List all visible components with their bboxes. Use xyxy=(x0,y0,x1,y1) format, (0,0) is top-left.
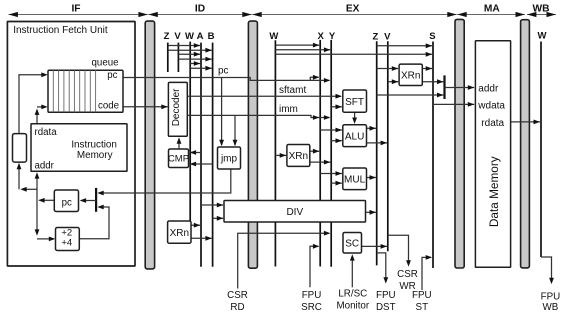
svg-text:V: V xyxy=(174,31,181,42)
svg-text:Monitor: Monitor xyxy=(336,301,369,312)
svg-text:Memory: Memory xyxy=(77,150,113,161)
svg-text:V: V xyxy=(384,31,391,42)
svg-text:sftamt: sftamt xyxy=(279,85,306,96)
svg-text:Decoder: Decoder xyxy=(171,88,182,126)
svg-text:XRn: XRn xyxy=(401,71,420,82)
svg-text:Instruction Fetch Unit: Instruction Fetch Unit xyxy=(13,25,108,36)
svg-text:WB: WB xyxy=(533,4,550,15)
svg-text:Z: Z xyxy=(372,31,378,42)
svg-text:wdata: wdata xyxy=(477,101,505,112)
svg-text:Y: Y xyxy=(329,31,336,42)
svg-text:DST: DST xyxy=(376,302,396,313)
svg-text:imm: imm xyxy=(279,104,298,115)
svg-text:Z: Z xyxy=(164,31,170,42)
svg-text:jmp: jmp xyxy=(220,154,238,165)
svg-text:WB: WB xyxy=(543,302,559,313)
svg-text:SFT: SFT xyxy=(345,97,364,108)
svg-text:W: W xyxy=(538,30,547,41)
svg-text:code: code xyxy=(98,101,119,112)
svg-text:rdata: rdata xyxy=(35,127,58,138)
svg-text:CSR: CSR xyxy=(397,269,418,280)
svg-text:MA: MA xyxy=(484,4,500,15)
svg-text:X: X xyxy=(318,31,325,42)
svg-text:addr: addr xyxy=(478,83,499,94)
svg-text:LR/SC: LR/SC xyxy=(338,288,367,299)
svg-text:S: S xyxy=(429,31,435,42)
svg-text:pc: pc xyxy=(62,198,72,209)
svg-text:MUL: MUL xyxy=(344,175,366,186)
svg-text:pc: pc xyxy=(218,66,229,77)
svg-text:pc: pc xyxy=(107,70,117,81)
svg-text:XRn: XRn xyxy=(170,228,189,239)
svg-text:FPU: FPU xyxy=(302,290,322,301)
svg-text:SRC: SRC xyxy=(301,302,322,313)
svg-text:SC: SC xyxy=(345,239,359,250)
svg-text:ST: ST xyxy=(416,302,429,313)
svg-text:rdata: rdata xyxy=(481,118,504,129)
svg-text:B: B xyxy=(208,31,215,42)
svg-text:DIV: DIV xyxy=(286,207,303,218)
svg-text:ALU: ALU xyxy=(345,131,364,142)
svg-text:W: W xyxy=(269,31,278,42)
svg-text:W: W xyxy=(185,31,194,42)
svg-text:CMP: CMP xyxy=(168,154,189,165)
svg-text:queue: queue xyxy=(92,57,119,68)
svg-text:XRn: XRn xyxy=(289,151,308,162)
svg-text:RD: RD xyxy=(230,302,244,313)
svg-text:A: A xyxy=(197,31,204,42)
svg-text:Data Memory: Data Memory xyxy=(487,156,501,227)
svg-text:IF: IF xyxy=(71,4,80,15)
svg-text:CSR: CSR xyxy=(227,290,248,301)
svg-text:FPU: FPU xyxy=(376,290,396,301)
svg-text:EX: EX xyxy=(346,4,360,15)
svg-text:addr: addr xyxy=(35,160,55,171)
svg-text:ID: ID xyxy=(195,4,205,15)
svg-text:+4: +4 xyxy=(61,238,72,249)
svg-text:FPU: FPU xyxy=(412,290,432,301)
